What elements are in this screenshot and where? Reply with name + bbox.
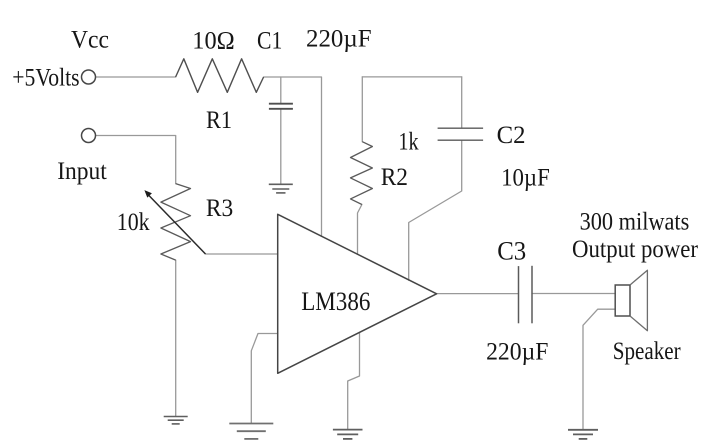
- svg-text:10k: 10k: [117, 209, 150, 236]
- svg-text:R1: R1: [206, 107, 232, 134]
- svg-text:C1: C1: [257, 28, 282, 55]
- svg-text:Input: Input: [57, 158, 107, 185]
- svg-text:LM386: LM386: [301, 286, 370, 316]
- svg-text:R2: R2: [381, 164, 408, 191]
- svg-text:C2: C2: [497, 122, 526, 149]
- svg-text:220µF: 220µF: [306, 26, 372, 53]
- svg-text:Vcc: Vcc: [71, 27, 109, 54]
- svg-text:R3: R3: [206, 195, 233, 222]
- svg-text:1k: 1k: [398, 129, 419, 156]
- svg-text:10Ω: 10Ω: [192, 28, 234, 55]
- svg-text:10µF: 10µF: [501, 165, 550, 192]
- svg-text:220µF: 220µF: [486, 339, 548, 366]
- svg-text:Output power: Output power: [572, 236, 699, 263]
- svg-text:Speaker: Speaker: [613, 338, 681, 365]
- svg-text:+5Volts: +5Volts: [12, 64, 79, 91]
- svg-text:300 milwats: 300 milwats: [580, 209, 690, 236]
- svg-text:C3: C3: [497, 235, 526, 265]
